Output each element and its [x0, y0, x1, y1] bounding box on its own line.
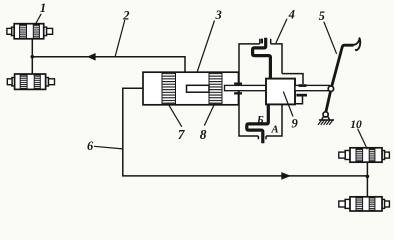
svg-text:5: 5 [319, 9, 325, 23]
svg-text:10: 10 [350, 119, 362, 131]
svg-text:А: А [271, 125, 279, 136]
svg-text:2: 2 [122, 8, 129, 22]
svg-text:7: 7 [178, 127, 186, 142]
svg-text:8: 8 [200, 127, 207, 142]
svg-text:3: 3 [215, 8, 222, 22]
svg-text:Б: Б [256, 115, 264, 126]
svg-text:9: 9 [292, 117, 299, 131]
svg-text:6: 6 [87, 139, 94, 153]
svg-text:4: 4 [288, 7, 295, 21]
svg-text:1: 1 [40, 1, 46, 15]
